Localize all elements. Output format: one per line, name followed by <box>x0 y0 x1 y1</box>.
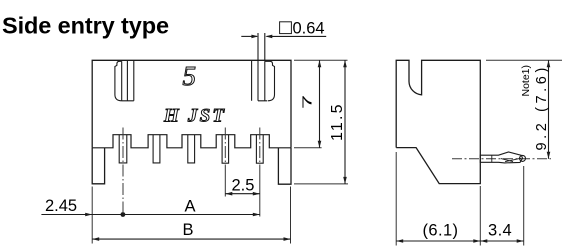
svg-text:7: 7 <box>301 95 315 109</box>
centerline pin5 <box>259 128 261 167</box>
dim B <box>92 238 290 240</box>
extension line body bottom right <box>294 147 322 149</box>
logo H JST <box>163 106 226 127</box>
side view body outline <box>396 60 480 183</box>
svg-text:B: B <box>183 221 194 239</box>
side pin <box>480 152 525 163</box>
side pin crimp details <box>492 155 521 162</box>
dim 0.64 <box>241 35 326 37</box>
extension line side body left <box>395 152 397 246</box>
extension line side body right <box>479 186 481 246</box>
label 0.64 with square symbol <box>280 22 292 34</box>
svg-text:H JST: H JST <box>163 106 226 127</box>
pin P2 <box>153 135 160 163</box>
dim 11.5 <box>344 60 346 184</box>
dim 7 <box>319 60 321 148</box>
arrowheads dim 9.2 <box>547 60 551 67</box>
svg-text:2.45: 2.45 <box>45 197 77 215</box>
svg-text:11.5: 11.5 <box>329 102 346 141</box>
dim 9.2 (7.6) <box>548 60 550 159</box>
arrowheads dim 3.4 <box>480 239 487 243</box>
arrowheads dim (6.1) <box>396 239 403 243</box>
pin P5 <box>256 135 263 164</box>
side pin tip circle <box>520 155 526 161</box>
arrowheads dim 2.45 / A <box>85 213 92 217</box>
pin tab top (0.64 sq) <box>258 33 265 101</box>
extension line body top right <box>294 59 348 61</box>
extension line pin5 center <box>259 166 261 217</box>
pin P3 <box>188 135 195 163</box>
dim 2.5 <box>225 193 259 195</box>
extension line feet bottom right <box>294 183 348 185</box>
dim 2.45 and A line <box>41 214 259 216</box>
svg-text:A: A <box>185 198 196 216</box>
centerline pin4 <box>224 128 226 167</box>
svg-text:2.5: 2.5 <box>232 177 255 195</box>
front view bottom edge castellated <box>92 135 291 148</box>
svg-text:Side entry type: Side entry type <box>2 13 169 39</box>
svg-text:0.64: 0.64 <box>293 20 325 38</box>
pin P1 <box>119 135 127 163</box>
extension line side body top <box>486 59 562 61</box>
latch left lever <box>115 61 122 101</box>
svg-text:5: 5 <box>183 61 197 91</box>
extension line side pin tip <box>523 166 525 246</box>
extension line body left edge <box>91 187 93 244</box>
arrowheads dim 0.64 <box>251 35 258 39</box>
junction dot pin1 center <box>121 212 126 217</box>
side pin centerline <box>452 158 551 160</box>
svg-text:3.4: 3.4 <box>488 222 512 240</box>
arrowheads dim 11.5 <box>343 60 347 67</box>
extension line body right edge <box>290 187 292 244</box>
latch right inner line <box>264 61 266 101</box>
left foot <box>92 148 104 184</box>
latch right slot <box>252 60 267 101</box>
arrowheads dim 7 <box>318 60 322 67</box>
svg-text:9.2 (7.6): 9.2 (7.6) <box>534 64 550 150</box>
arrowheads dim B <box>92 237 99 241</box>
dim 3.4 <box>480 240 523 242</box>
right foot <box>278 148 291 184</box>
svg-text:(6.1): (6.1) <box>423 222 459 240</box>
extension line pin4 center <box>224 166 226 197</box>
latch left slot <box>122 60 134 101</box>
front view body outline <box>92 60 291 148</box>
latch left inner line <box>121 61 123 101</box>
svg-text:Note1): Note1) <box>520 65 532 97</box>
centerline pin1 <box>122 128 124 213</box>
pin P4 <box>222 135 229 164</box>
dim (6.1) <box>396 240 480 242</box>
latch right lever <box>265 61 275 101</box>
arrowheads dim 2.5 <box>225 192 232 196</box>
